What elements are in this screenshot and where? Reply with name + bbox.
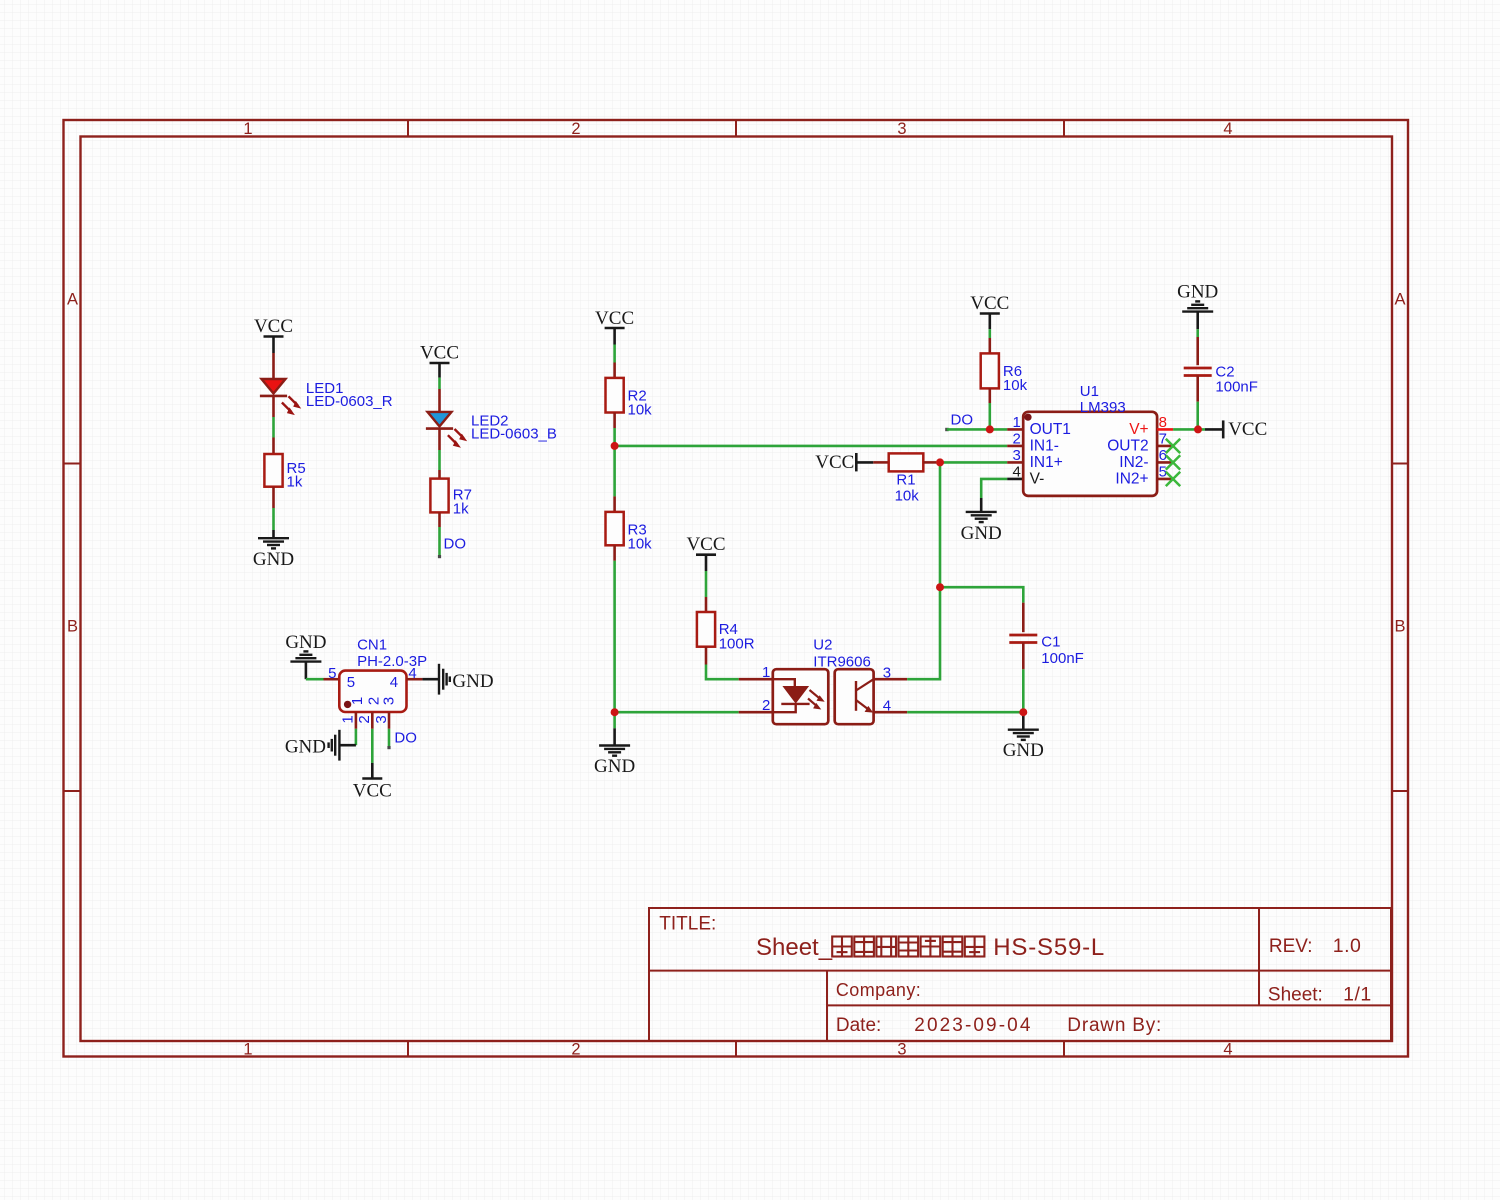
- svg-text:1: 1: [762, 664, 770, 681]
- svg-text:Date:: Date:: [836, 1015, 881, 1036]
- svg-text:Sheet:: Sheet:: [1268, 985, 1323, 1006]
- resistor R5: [264, 454, 282, 487]
- svg-text:10k: 10k: [895, 488, 920, 505]
- CN1 pin 1 lead (bottom): [355, 712, 358, 729]
- wire VCC to R6: [988, 329, 991, 338]
- wire C2 to V+ junction: [1196, 402, 1199, 430]
- svg-text:1/1: 1/1: [1343, 984, 1372, 1006]
- frame ruler ticks top: [408, 120, 1064, 137]
- LED2 cathode pin lead: [438, 429, 441, 450]
- R5 top pin lead: [272, 438, 275, 455]
- wire VCC to R4: [705, 571, 708, 597]
- C2 bottom pin lead: [1196, 376, 1199, 402]
- junction node at DO/OUT1: [986, 425, 994, 433]
- svg-text:1: 1: [243, 1041, 252, 1059]
- title block borders: [649, 908, 1391, 1041]
- LED2 anode pin lead: [438, 389, 441, 412]
- junction node at C1 feed: [936, 583, 944, 591]
- R6 top pin lead: [988, 338, 991, 353]
- svg-text:B: B: [1394, 618, 1405, 636]
- wire R2 to junction: [613, 428, 616, 446]
- R2 top pin lead: [613, 363, 616, 378]
- CN1 pin 4 lead: [407, 678, 423, 681]
- svg-text:2: 2: [571, 1041, 580, 1059]
- svg-text:1: 1: [1012, 414, 1020, 431]
- svg-text:GND: GND: [285, 736, 326, 757]
- LED1 anode pin lead: [272, 353, 275, 379]
- wire U1 pin 8 to VCC junction: [1173, 428, 1205, 431]
- U1 pin 4 lead: [1007, 478, 1023, 481]
- U2 internal LED symbol: [773, 679, 825, 712]
- svg-text:DO: DO: [951, 412, 974, 429]
- C1 bottom pin lead: [1022, 643, 1025, 670]
- no-connect X on pin 5: [1166, 472, 1180, 486]
- svg-text:Sheet_: Sheet_: [756, 934, 833, 961]
- CN1 pin 5 lead: [324, 678, 340, 681]
- svg-text:C1: C1: [1041, 634, 1060, 651]
- CN1 pin 2 lead (bottom): [371, 712, 374, 729]
- svg-text:IN2+: IN2+: [1115, 471, 1148, 488]
- svg-text:1k: 1k: [453, 501, 469, 518]
- svg-text:2023-09-04: 2023-09-04: [914, 1015, 1032, 1036]
- resistor R1: [889, 453, 924, 471]
- U2 pin 2 lead: [739, 711, 773, 714]
- wire junction to U1 pin 1: [990, 428, 1007, 431]
- no-connect X on pin 6: [1166, 455, 1180, 469]
- U2 pin 4 lead: [874, 711, 908, 714]
- R2 bottom pin lead: [613, 413, 616, 429]
- R1 right pin lead: [923, 461, 936, 464]
- LED LED2 LED-0603_B symbol: [426, 412, 467, 448]
- U1 pin 3 lead: [1007, 461, 1023, 464]
- optocoupler U2 ITR9606 emitter box: [773, 669, 829, 724]
- svg-text:VCC: VCC: [353, 781, 392, 802]
- svg-text:TITLE:: TITLE:: [659, 913, 716, 934]
- svg-text:5: 5: [347, 674, 355, 691]
- svg-text:5: 5: [328, 665, 336, 682]
- wire GND to CN1 pin 5: [306, 678, 324, 681]
- C1 top pin lead: [1022, 603, 1025, 633]
- connector CN1 PH-2.0-3P body: [339, 671, 406, 712]
- svg-text:10k: 10k: [628, 536, 653, 553]
- svg-text:100R: 100R: [719, 636, 755, 653]
- no-connect X on pin 7: [1166, 439, 1180, 453]
- svg-text:1.0: 1.0: [1333, 935, 1362, 957]
- svg-text:4: 4: [408, 665, 416, 682]
- wire R6 to DO node: [988, 403, 991, 429]
- U1 pin 5 lead: [1157, 478, 1173, 481]
- svg-text:VCC: VCC: [686, 534, 725, 555]
- svg-text:3: 3: [373, 715, 390, 723]
- svg-text:1: 1: [349, 697, 366, 705]
- svg-text:Company:: Company:: [836, 980, 921, 1000]
- R6 bottom pin lead: [988, 388, 991, 403]
- wire CN1 pin 1 to GND: [355, 729, 358, 745]
- svg-text:10k: 10k: [1003, 377, 1028, 394]
- LED LED1 LED-0603_R symbol: [260, 379, 301, 415]
- power flag VCC (CN1 pin 2, below): [353, 763, 392, 802]
- svg-text:GND: GND: [253, 549, 294, 570]
- svg-text:R1: R1: [896, 472, 915, 489]
- U1 pin 1 indicator dot: [1024, 414, 1031, 421]
- R4 bottom pin lead: [705, 647, 708, 665]
- resistor R4: [697, 612, 715, 647]
- wire end marker (DO stub): [945, 428, 948, 431]
- resistor R2: [606, 378, 624, 413]
- svg-text:3: 3: [380, 697, 397, 705]
- U1 pin 6 lead: [1157, 461, 1173, 464]
- wire CN1 pin 2 to VCC: [371, 729, 374, 763]
- wire IN1- (R2/R3 junction to U1 pin 2): [615, 445, 1008, 448]
- CN1 first pin indicator dot: [344, 701, 351, 708]
- svg-text:GND: GND: [961, 523, 1002, 544]
- svg-text:GND: GND: [452, 671, 493, 692]
- wire V- to GND: [981, 479, 1007, 498]
- R1 left pin lead: [873, 461, 888, 464]
- svg-text:ITR9606: ITR9606: [813, 654, 871, 671]
- R3 bottom pin lead: [613, 545, 616, 561]
- svg-text:3: 3: [883, 665, 891, 682]
- wire CN1 pin 4 to GND: [422, 678, 438, 681]
- power flag VCC (LED2): [420, 343, 459, 378]
- svg-text:2: 2: [356, 715, 373, 723]
- capacitor C1: [1009, 635, 1037, 643]
- wire bottom rail to U2 pin 2: [615, 711, 739, 714]
- wire R3 down to bottom rail: [613, 561, 616, 712]
- svg-text:4: 4: [390, 674, 398, 691]
- wire junction to R3: [613, 446, 616, 497]
- svg-text:HS-S59-L: HS-S59-L: [993, 934, 1105, 961]
- svg-text:A: A: [67, 291, 78, 309]
- power flag VCC (R4): [686, 534, 725, 571]
- svg-text:8: 8: [1159, 414, 1167, 431]
- wire R1 to U1 pin 3: [936, 461, 1007, 464]
- svg-text:GND: GND: [594, 756, 635, 777]
- resistor R6: [981, 353, 999, 388]
- power flag VCC (LED1): [254, 316, 293, 353]
- R7 bottom pin lead: [438, 512, 441, 527]
- svg-text:4: 4: [1012, 464, 1020, 481]
- wire VCC to R2: [613, 345, 616, 363]
- svg-text:IN1+: IN1+: [1030, 454, 1063, 471]
- resistor R3: [606, 512, 624, 545]
- junction node at IN1+: [936, 458, 944, 466]
- wire end marker (LED2 DO): [438, 555, 441, 558]
- power flag VCC (R2): [595, 308, 634, 345]
- wire U2 pin 3 up to comparator input: [907, 462, 940, 679]
- ground GND (bottom rail): [594, 728, 635, 777]
- svg-text:VCC: VCC: [1228, 419, 1267, 440]
- svg-text:3: 3: [1012, 447, 1020, 464]
- LED1 cathode pin lead: [272, 396, 275, 417]
- svg-text:LED-0603_B: LED-0603_B: [471, 426, 557, 443]
- svg-text:3: 3: [897, 1041, 906, 1059]
- svg-text:4: 4: [1223, 120, 1232, 138]
- svg-text:Drawn By:: Drawn By:: [1067, 1015, 1162, 1036]
- ground GND (C1): [1003, 712, 1044, 761]
- svg-text:100nF: 100nF: [1041, 650, 1084, 667]
- svg-text:A: A: [1394, 291, 1405, 309]
- svg-text:GND: GND: [1177, 282, 1218, 303]
- resistor R7: [430, 479, 448, 513]
- svg-text:U2: U2: [813, 637, 832, 654]
- junction node at bottom rail: [611, 708, 619, 716]
- svg-text:3: 3: [897, 120, 906, 138]
- svg-text:1k: 1k: [287, 474, 303, 491]
- R3 top pin lead: [613, 496, 616, 512]
- svg-text:LM393: LM393: [1080, 399, 1126, 416]
- svg-text:DO: DO: [394, 730, 417, 747]
- svg-text:1: 1: [340, 715, 357, 723]
- wire C1 to bottom rail: [1022, 669, 1025, 712]
- ground GND (CN1 pin 4, sideways): [439, 664, 494, 695]
- svg-text:1: 1: [243, 120, 252, 138]
- svg-text:V+: V+: [1129, 421, 1148, 438]
- svg-text:DO: DO: [444, 536, 467, 553]
- svg-text:GND: GND: [1003, 740, 1044, 761]
- title block CJK characters of sheet title: [832, 937, 984, 957]
- wire LED2 to R7: [438, 450, 441, 470]
- U1 pin 8 lead: [1157, 428, 1173, 431]
- svg-text:IN1-: IN1-: [1030, 438, 1059, 455]
- wire GND to C2: [1196, 329, 1199, 337]
- svg-text:OUT2: OUT2: [1107, 438, 1148, 455]
- power flag VCC (U1 pin 8, horizontal): [1205, 419, 1267, 440]
- svg-text:4: 4: [1223, 1041, 1232, 1059]
- comparator U1 LM393 body: [1023, 412, 1157, 496]
- U2 pin 1 lead: [739, 678, 773, 681]
- svg-text:VCC: VCC: [970, 293, 1009, 314]
- R4 top pin lead: [705, 597, 708, 612]
- R7 top pin lead: [438, 470, 441, 479]
- svg-text:VCC: VCC: [815, 452, 854, 473]
- wire end marker (CN1 DO): [387, 746, 390, 749]
- wire U2 pin 4 to C1 junction: [907, 711, 1023, 714]
- svg-text:2: 2: [762, 697, 770, 714]
- frame ruler ticks sides: [64, 464, 1409, 792]
- svg-text:V-: V-: [1030, 471, 1045, 488]
- svg-text:REV:: REV:: [1269, 936, 1313, 957]
- ground GND (U1 V-): [961, 498, 1002, 544]
- svg-text:GND: GND: [285, 632, 326, 653]
- svg-text:LED-0603_R: LED-0603_R: [306, 393, 393, 410]
- C2 top pin lead: [1196, 337, 1199, 365]
- junction node at R2/R3: [611, 442, 619, 450]
- wire R7 to DO stub: [438, 527, 441, 556]
- svg-text:OUT1: OUT1: [1030, 421, 1071, 438]
- wire junction to C1 top: [940, 587, 1023, 603]
- junction node at C1 bottom: [1019, 708, 1027, 716]
- U1 pin 7 lead: [1157, 445, 1173, 448]
- svg-text:VCC: VCC: [254, 316, 293, 337]
- ground GND (C2, flipped): [1177, 282, 1218, 330]
- frame outer border: [64, 120, 1409, 1057]
- wire LED1 to R5: [272, 417, 275, 438]
- U1 pin 2 lead: [1007, 445, 1023, 448]
- svg-text:2: 2: [571, 120, 580, 138]
- svg-text:VCC: VCC: [420, 343, 459, 364]
- junction node at V+: [1194, 425, 1202, 433]
- power flag VCC (R1, horizontal): [815, 452, 873, 473]
- power flag VCC (R6): [970, 293, 1009, 329]
- wire VCC to LED2: [438, 378, 441, 389]
- svg-text:CN1: CN1: [357, 637, 387, 654]
- U2 pin 3 lead: [874, 678, 908, 681]
- svg-text:U1: U1: [1080, 383, 1099, 400]
- U2 internal phototransistor symbol: [856, 679, 874, 712]
- svg-text:4: 4: [883, 698, 891, 715]
- wire R4 to U2 pin 1: [706, 665, 739, 680]
- ground GND (LED1): [253, 530, 294, 570]
- CN1 pin 3 lead (bottom): [388, 712, 391, 729]
- wire bottom rail junction to GND: [613, 712, 616, 728]
- ground GND (CN1 pin 5, flipped): [285, 632, 326, 679]
- svg-text:2: 2: [1012, 431, 1020, 448]
- wire DO stub to junction: [947, 428, 990, 431]
- svg-text:IN2-: IN2-: [1119, 454, 1148, 471]
- frame ruler ticks bottom: [408, 1041, 1064, 1057]
- U1 pin 1 lead: [1007, 428, 1023, 431]
- svg-text:B: B: [67, 618, 78, 636]
- optocoupler U2 ITR9606 sensor box: [835, 669, 874, 724]
- wire R5 to GND: [272, 508, 275, 530]
- svg-text:VCC: VCC: [595, 308, 634, 329]
- R5 bottom pin lead: [272, 487, 275, 508]
- svg-text:10k: 10k: [628, 402, 653, 419]
- wire CN1 pin 3 DO stub: [388, 729, 391, 747]
- capacitor C2: [1184, 368, 1212, 376]
- svg-text:100nF: 100nF: [1215, 379, 1258, 396]
- ground GND (CN1 pin 1, sideways left): [285, 730, 356, 761]
